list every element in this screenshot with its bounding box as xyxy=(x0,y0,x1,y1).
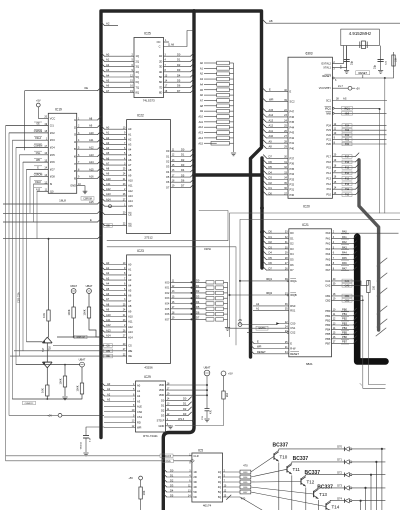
svg-text:A15: A15 xyxy=(89,167,94,171)
svg-text:I/O2: I/O2 xyxy=(50,131,55,135)
IC23 pin A11 wire xyxy=(101,318,105,322)
svg-text:D1: D1 xyxy=(181,153,185,157)
IC5 pin D2 wire xyxy=(163,479,167,483)
svg-text:A2: A2 xyxy=(128,137,132,141)
svg-text:A7: A7 xyxy=(106,161,110,165)
svg-text:OE: OE xyxy=(106,355,110,358)
svg-text:P20: P20 xyxy=(326,142,331,146)
svg-text:D3: D3 xyxy=(196,295,200,299)
UBAT circle 3 xyxy=(80,362,85,367)
hatch marks on port bus xyxy=(377,258,387,266)
resistor 470 R35 xyxy=(223,481,241,483)
svg-text:P35: P35 xyxy=(290,167,295,171)
ground of IC29 xyxy=(168,425,173,427)
svg-text:A8: A8 xyxy=(106,302,110,306)
svg-text:T13: T13 xyxy=(319,492,327,497)
IC23 pin A12 wire xyxy=(101,323,105,327)
svg-text:CE: CE xyxy=(128,212,132,216)
svg-text:D1: D1 xyxy=(161,403,165,407)
svg-text:CA2: CA2 xyxy=(325,283,331,287)
IC21 pin D0 wire xyxy=(263,230,267,234)
svg-text:D0: D0 xyxy=(177,53,181,57)
svg-text:A8: A8 xyxy=(200,104,204,108)
svg-text:A3: A3 xyxy=(106,141,110,145)
IC20 pin E xyxy=(263,88,267,92)
svg-text:VCC: VCC xyxy=(50,116,56,120)
svg-text:A6: A6 xyxy=(128,158,132,162)
IC25 pin A6 wire xyxy=(101,84,105,88)
svg-text:E: E xyxy=(257,340,259,344)
svg-text:CS0: CS0 xyxy=(290,322,296,326)
IC23 pin A14 wire xyxy=(101,334,105,338)
svg-text:A6: A6 xyxy=(128,294,132,298)
IC23 pin IO4 wire xyxy=(171,303,207,305)
svg-text:P22: P22 xyxy=(326,133,331,137)
wire CILA from left xyxy=(6,460,162,462)
svg-text:CA1: CA1 xyxy=(325,279,331,283)
IC22 pin A1 wire xyxy=(101,131,105,135)
IC20 pin A15 wire xyxy=(263,108,267,112)
resistor 100K (4) xyxy=(81,367,83,383)
svg-text:A2: A2 xyxy=(106,21,110,25)
svg-text:D3: D3 xyxy=(290,247,294,251)
svg-text:A0: A0 xyxy=(200,61,204,65)
svg-text:PA1: PA1 xyxy=(342,235,347,239)
svg-text:1D: 1D xyxy=(159,54,162,58)
wire row 364 xyxy=(16,364,80,366)
svg-text:A10: A10 xyxy=(106,313,111,317)
svg-text:A1: A1 xyxy=(256,306,260,310)
svg-text:10K: 10K xyxy=(42,313,46,318)
svg-text:P23: P23 xyxy=(326,128,331,132)
IC25 OC/C pins xyxy=(164,41,170,43)
svg-text:D3: D3 xyxy=(177,68,181,72)
svg-text:OE: OE xyxy=(106,224,110,227)
svg-text:A7: A7 xyxy=(200,98,204,102)
svg-text:XTAL1: XTAL1 xyxy=(323,66,331,70)
svg-text:WR: WR xyxy=(137,426,141,430)
svg-text:CSPGM: CSPGM xyxy=(34,131,43,133)
svg-text:P16: P16 xyxy=(326,160,331,164)
svg-text:D7: D7 xyxy=(269,155,273,159)
svg-text:A4: A4 xyxy=(106,282,110,286)
IC23 pin A4 wire xyxy=(101,282,105,286)
svg-text:PA3: PA3 xyxy=(326,247,331,251)
svg-text:A10: A10 xyxy=(198,115,203,119)
svg-text:D5: D5 xyxy=(181,173,185,177)
svg-text:A12: A12 xyxy=(128,189,133,193)
svg-text:D0: D0 xyxy=(290,231,294,235)
svg-text:O0: O0 xyxy=(166,149,170,153)
svg-text:A2: A2 xyxy=(256,302,260,306)
svg-text:PB5: PB5 xyxy=(325,332,330,336)
svg-text:P21: P21 xyxy=(326,137,331,141)
svg-text:A2: A2 xyxy=(128,273,132,277)
IC5 pin D0 wire xyxy=(163,469,167,473)
svg-text:CSR CSA: CSR CSA xyxy=(18,292,21,303)
svg-text:P43: P43 xyxy=(290,131,295,135)
svg-text:D2: D2 xyxy=(181,158,185,162)
svg-text:A9: A9 xyxy=(106,172,110,176)
resistor 10K (2) xyxy=(46,385,49,396)
svg-text:O5: O5 xyxy=(166,175,170,179)
IC20 pin D2 wire xyxy=(263,181,267,185)
svg-text:I/O4: I/O4 xyxy=(50,146,55,150)
IC22 pin A15 wire xyxy=(101,203,105,207)
section box around IC21 outer xyxy=(230,213,400,337)
IC29 pin A2 wire xyxy=(101,393,105,397)
svg-text:10K: 10K xyxy=(41,388,45,393)
svg-text:6Q: 6Q xyxy=(136,80,139,84)
svg-text:AS: AS xyxy=(343,97,347,101)
section boundary IC23 area xyxy=(107,247,236,345)
svg-text:16L8: 16L8 xyxy=(59,198,66,202)
svg-text:D3: D3 xyxy=(269,245,273,249)
svg-text:GND: GND xyxy=(159,424,165,428)
IC29 pin A3 wire xyxy=(101,398,105,402)
svg-text:1Q: 1Q xyxy=(218,470,221,474)
svg-text:I/O6: I/O6 xyxy=(50,160,55,164)
svg-text:O4: O4 xyxy=(166,170,170,174)
svg-text:D7: D7 xyxy=(177,89,181,93)
svg-text:D2: D2 xyxy=(161,409,165,413)
svg-text:E: E xyxy=(90,218,92,222)
svg-text:A13: A13 xyxy=(89,153,94,157)
svg-text:IC5: IC5 xyxy=(198,449,203,453)
svg-text:D5: D5 xyxy=(269,165,273,169)
IC25 pin A5 wire xyxy=(101,79,105,83)
svg-text:P14: P14 xyxy=(326,171,331,175)
svg-text:A14: A14 xyxy=(198,136,203,140)
svg-text:CSL: CSL xyxy=(36,153,41,155)
svg-text:11 A8: 11 A8 xyxy=(168,44,175,47)
svg-text:D5: D5 xyxy=(196,305,200,309)
IC21 pin RS0 xyxy=(253,305,289,307)
svg-text:D4: D4 xyxy=(181,168,185,172)
svg-text:A11: A11 xyxy=(89,138,94,142)
svg-text:P34: P34 xyxy=(290,172,295,176)
svg-text:1Q: 1Q xyxy=(136,54,139,58)
svg-text:I10: I10 xyxy=(50,189,54,193)
boxed label row 399 xyxy=(23,401,36,404)
svg-text:D2: D2 xyxy=(170,478,174,482)
svg-text:P22: P22 xyxy=(345,134,350,137)
svg-text:P42: P42 xyxy=(290,136,295,140)
IC22 pin A12 wire xyxy=(101,187,105,191)
svg-text:IC21: IC21 xyxy=(302,223,309,227)
svg-text:T12: T12 xyxy=(307,479,315,484)
svg-text:P17: P17 xyxy=(326,154,331,158)
svg-text:D0: D0 xyxy=(181,148,185,152)
IC23 pin IO6 wire xyxy=(171,313,207,315)
svg-text:I/O2: I/O2 xyxy=(165,292,170,295)
svg-text:CS: CS xyxy=(106,345,110,348)
svg-text:A5: A5 xyxy=(106,287,110,291)
svg-text:I/O5: I/O5 xyxy=(50,153,55,157)
svg-text:A0: A0 xyxy=(128,127,132,131)
IC25 pin D1 wire xyxy=(164,60,191,62)
svg-text:IRQA: IRQA xyxy=(290,279,297,283)
svg-text:IRQ1: IRQ1 xyxy=(344,107,350,110)
svg-text:UBAT: UBAT xyxy=(79,358,86,362)
IC21 pin CS1 xyxy=(230,327,289,329)
svg-text:8D: 8D xyxy=(159,91,162,95)
svg-text:PB7: PB7 xyxy=(342,340,347,344)
IC22 pin A0 wire xyxy=(101,126,105,130)
IC20 pin WR xyxy=(263,98,267,102)
svg-text:O3: O3 xyxy=(166,165,170,169)
svg-text:330: 330 xyxy=(373,285,376,290)
IC23 pin IO0 wire xyxy=(171,281,207,283)
IC5 pin D5 wire xyxy=(163,494,167,498)
svg-text:P32: P32 xyxy=(290,183,295,187)
svg-text:P46: P46 xyxy=(290,115,295,119)
UBAT supply circle xyxy=(204,370,210,376)
svg-text:2D: 2D xyxy=(193,475,196,479)
svg-text:D0: D0 xyxy=(161,398,165,402)
diode rail 0 xyxy=(381,449,383,510)
svg-text:P13: P13 xyxy=(345,177,350,180)
IC23 43256 RAM xyxy=(127,255,171,364)
RESET label box xyxy=(356,71,370,75)
IC21 6821 PIA xyxy=(289,229,332,357)
svg-text:A12: A12 xyxy=(269,124,274,128)
svg-text:A11: A11 xyxy=(269,129,274,133)
svg-text:P31: P31 xyxy=(290,188,295,192)
svg-text:A15: A15 xyxy=(128,204,133,208)
svg-text:P11: P11 xyxy=(345,188,350,191)
svg-text:WR: WR xyxy=(257,345,261,349)
svg-text:WR: WR xyxy=(36,160,40,162)
svg-text:RESET: RESET xyxy=(257,350,266,354)
IC29 pin A0 wire xyxy=(101,382,105,386)
IC25 74LS373 latch xyxy=(134,38,164,98)
svg-text:D71: D71 xyxy=(337,458,342,462)
svg-text:VDD: VDD xyxy=(159,388,165,392)
svg-text:T16: T16 xyxy=(49,346,52,351)
IC25 pin D5 wire xyxy=(164,81,191,83)
svg-text:PB0: PB0 xyxy=(325,309,330,313)
IC23 pin IO7 wire xyxy=(171,318,207,320)
svg-text:A3: A3 xyxy=(106,276,110,280)
+5V supply circle xyxy=(221,371,226,376)
svg-text:PB6: PB6 xyxy=(342,335,347,339)
svg-text:I/O4: I/O4 xyxy=(165,303,170,306)
transistor T14 BC337 xyxy=(325,503,327,509)
svg-text:100K: 100K xyxy=(82,309,86,315)
svg-text:D4: D4 xyxy=(177,73,181,77)
svg-text:27512: 27512 xyxy=(144,236,153,240)
svg-text:3Q: 3Q xyxy=(136,65,139,69)
svg-text:P45: P45 xyxy=(290,120,295,124)
svg-text:47u: 47u xyxy=(210,409,213,414)
ground of IC19 xyxy=(83,190,88,192)
svg-text:CS0: CS0 xyxy=(137,410,143,414)
long wire from 2k2 to GND row xyxy=(175,399,224,426)
IC21 pin D1 wire xyxy=(263,235,267,239)
svg-text:A0: A0 xyxy=(106,261,110,265)
IC22 pin A3 wire xyxy=(101,141,105,145)
svg-text:A0: A0 xyxy=(107,382,111,386)
svg-text:3Q: 3Q xyxy=(218,480,221,484)
svg-text:BC337: BC337 xyxy=(293,456,309,462)
svg-text:CI1: CI1 xyxy=(50,124,55,128)
IC23 CS pin xyxy=(53,345,127,347)
bus: middle vertical branch down to IC5 xyxy=(163,11,194,510)
svg-text:PA2: PA2 xyxy=(326,242,331,246)
IC20 pin A13 wire xyxy=(263,119,267,123)
svg-text:UBAT: UBAT xyxy=(70,284,77,288)
svg-text:I/O8: I/O8 xyxy=(50,175,55,179)
svg-text:3D: 3D xyxy=(193,480,196,484)
svg-text:A9: A9 xyxy=(200,109,204,113)
svg-text:OE: OE xyxy=(128,223,132,227)
wires from supplies xyxy=(206,376,208,409)
svg-text:A9: A9 xyxy=(106,308,110,312)
svg-text:VDD: VDD xyxy=(159,383,165,387)
svg-text:A1: A1 xyxy=(128,132,132,136)
IC19 16L8 PAL xyxy=(48,113,76,193)
svg-text:PA6: PA6 xyxy=(326,263,331,267)
resistor array common rail xyxy=(227,282,229,325)
svg-text:CS1: CS1 xyxy=(137,415,143,419)
IC20 pin A11 wire xyxy=(263,129,267,133)
svg-text:A1: A1 xyxy=(137,389,141,393)
ground of resistor array xyxy=(227,326,229,328)
svg-text:A3: A3 xyxy=(128,143,132,147)
svg-text:+5V: +5V xyxy=(238,319,243,322)
svg-text:R-W: R-W xyxy=(290,347,296,351)
IC23 pin IO3 wire xyxy=(171,297,207,299)
IC23 pin A6 wire xyxy=(101,292,105,296)
IC22 OE bus stub xyxy=(101,222,105,226)
IC21 pin D4 wire xyxy=(263,251,267,255)
svg-text:A8: A8 xyxy=(128,304,132,308)
IC29 pin ALE wire xyxy=(104,406,136,408)
svg-text:4.9152MHz: 4.9152MHz xyxy=(349,31,371,36)
IC21 pin IRQB xyxy=(287,294,289,296)
svg-text:PA6: PA6 xyxy=(342,261,347,265)
resistor 470 R36 xyxy=(223,486,241,488)
IC22 pin A9 wire xyxy=(101,172,105,176)
svg-text:D3: D3 xyxy=(161,414,165,418)
resistor 330 xyxy=(360,281,362,285)
IC22 pin A11 wire xyxy=(101,182,105,186)
svg-text:PB7: PB7 xyxy=(325,341,330,345)
IC23 pin A5 wire xyxy=(101,287,105,291)
svg-text:A3: A3 xyxy=(128,278,132,282)
svg-text:CB1: CB1 xyxy=(345,295,350,298)
svg-text:IC19: IC19 xyxy=(55,107,62,111)
transistor T13 BC337 xyxy=(313,491,315,497)
svg-text:O2: O2 xyxy=(166,160,170,164)
+5V circle above IC19 xyxy=(36,103,40,107)
svg-text:A4: A4 xyxy=(200,82,204,86)
svg-text:PA5: PA5 xyxy=(326,258,331,262)
svg-text:A11: A11 xyxy=(128,320,133,324)
svg-text:SC1: SC1 xyxy=(326,99,332,103)
svg-text:PA4: PA4 xyxy=(326,252,331,256)
array common rail xyxy=(233,63,235,150)
UBAT circle 1 xyxy=(71,289,76,294)
svg-text:A16: A16 xyxy=(89,175,94,179)
svg-text:P10: P10 xyxy=(345,194,350,197)
svg-text:+5V: +5V xyxy=(356,87,361,90)
svg-text:CSPIA: CSPIA xyxy=(204,248,211,251)
svg-text:A6: A6 xyxy=(106,156,110,160)
IC29 pin WR wire xyxy=(104,427,136,429)
svg-text:PB4: PB4 xyxy=(325,328,330,332)
svg-text:D2: D2 xyxy=(196,289,200,293)
wires from 100K resistors down xyxy=(73,318,75,337)
transistor T12 BC337 xyxy=(300,478,302,484)
svg-text:D7: D7 xyxy=(290,268,294,272)
svg-text:WE: WE xyxy=(128,349,132,353)
resistor array row 2 xyxy=(206,291,214,294)
svg-text:PB3: PB3 xyxy=(325,323,330,327)
svg-text:PA2: PA2 xyxy=(342,240,347,244)
wire CLR-IC5 from left xyxy=(6,455,160,457)
svg-text:A8: A8 xyxy=(269,145,273,149)
IC21 pin D7 wire xyxy=(263,267,267,271)
svg-text:I/O3: I/O3 xyxy=(165,297,170,300)
svg-text:20p: 20p xyxy=(374,64,377,69)
+5V circle bottom left xyxy=(58,413,62,417)
svg-text:2Q: 2Q xyxy=(218,475,221,479)
svg-text:A5: A5 xyxy=(128,289,132,293)
svg-text:A12: A12 xyxy=(106,187,111,191)
transistor T10 BC337 xyxy=(273,453,275,459)
svg-text:A3: A3 xyxy=(106,68,110,72)
svg-text:A10: A10 xyxy=(128,315,133,319)
+5V circle for CS0 xyxy=(238,323,242,327)
svg-text:CLR: CLR xyxy=(193,454,198,458)
svg-text:PB3: PB3 xyxy=(342,321,347,325)
svg-text:A2: A2 xyxy=(106,63,110,67)
svg-text:P20: P20 xyxy=(345,143,350,146)
IC22 OE pin xyxy=(104,224,127,226)
svg-text:P36: P36 xyxy=(290,162,295,166)
IC29 pin RD wire xyxy=(104,421,136,423)
svg-text:A13: A13 xyxy=(128,194,133,198)
svg-text:A3: A3 xyxy=(200,77,204,81)
svg-text:I/O5: I/O5 xyxy=(165,308,170,311)
svg-text:A13: A13 xyxy=(128,330,133,334)
svg-text:A12: A12 xyxy=(89,146,94,150)
svg-text:CSMEM: CSMEM xyxy=(34,146,43,148)
svg-text:5Q: 5Q xyxy=(136,75,139,79)
svg-text:7Q: 7Q xyxy=(136,85,139,89)
diode rail 2 xyxy=(370,475,372,510)
crystal right node wire xyxy=(380,46,382,70)
svg-text:RESET: RESET xyxy=(322,74,331,78)
svg-text:CA1: CA1 xyxy=(345,280,350,283)
svg-text:A4: A4 xyxy=(128,283,132,287)
svg-text:E: E xyxy=(269,88,271,92)
svg-text:IRQ1: IRQ1 xyxy=(266,277,273,281)
svg-text:A4: A4 xyxy=(128,148,132,152)
svg-text:IC29: IC29 xyxy=(144,375,151,379)
svg-text:A1: A1 xyxy=(106,58,110,62)
svg-text:D6: D6 xyxy=(269,160,273,164)
crystal left node wire xyxy=(346,46,348,70)
svg-text:6D: 6D xyxy=(159,80,162,84)
svg-text:D2: D2 xyxy=(269,240,273,244)
IC20 pin A8 wire xyxy=(263,145,267,149)
svg-text:RTC-72421: RTC-72421 xyxy=(143,434,158,438)
svg-text:D4: D4 xyxy=(269,170,273,174)
IC21 pin D6 wire xyxy=(263,261,267,265)
